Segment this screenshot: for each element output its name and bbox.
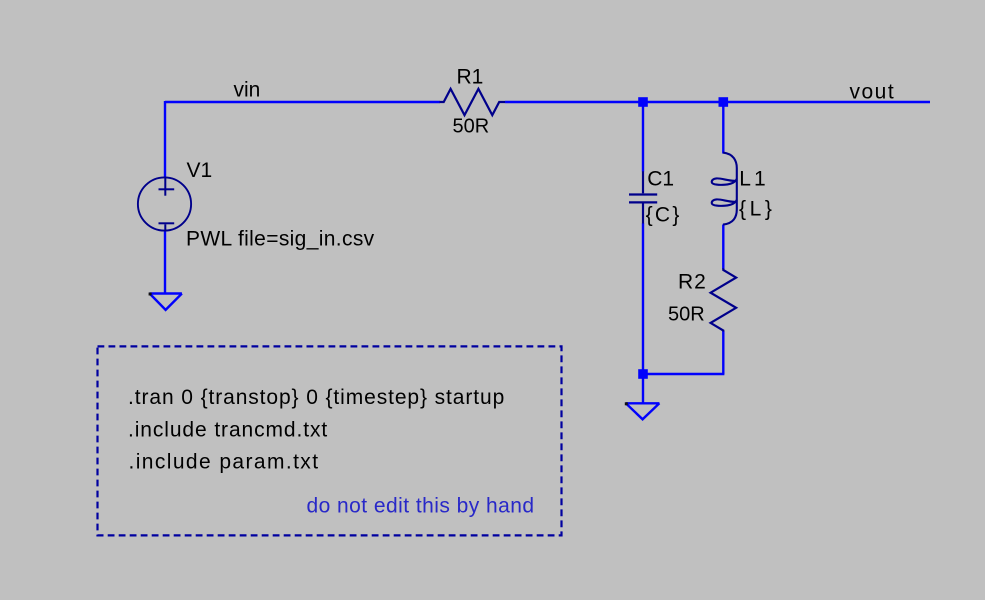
label R1 (457, 66, 484, 89)
wire V1 top vertical (164, 101, 166, 178)
value {C} (646, 204, 682, 227)
label R2 (678, 271, 707, 294)
resistor R1 (440, 89, 505, 115)
svg-text:PWL file=sig_in.csv: PWL file=sig_in.csv (186, 228, 375, 251)
wire R2 bottom (722, 331, 724, 374)
annotation dashed box (98, 346, 562, 535)
wire V1 bottom to ground (164, 231, 166, 294)
svg-text:R1: R1 (457, 66, 484, 89)
text .include param.txt (129, 451, 320, 474)
svg-text:{L}: {L} (739, 198, 776, 221)
svg-text:.tran 0 {transtop} 0 {timestep: .tran 0 {transtop} 0 {timestep} startup (128, 386, 505, 409)
capacitor C1 (629, 171, 657, 223)
text .include trancmd.txt (128, 419, 328, 442)
svg-text:do not edit this by hand: do not edit this by hand (307, 495, 535, 518)
ground GND1 (149, 293, 182, 310)
inductor L1 (712, 153, 737, 225)
junction node at L1 top (719, 97, 729, 107)
wire bottom horizontal (643, 373, 724, 375)
label C1 (647, 168, 674, 191)
svg-text:C1: C1 (647, 168, 674, 191)
svg-text:.include trancmd.txt: .include trancmd.txt (128, 419, 328, 442)
node label vin (234, 79, 261, 102)
wire vout horizontal right segment (505, 101, 930, 103)
value {L} (739, 198, 776, 221)
wire L1 to R2 (722, 225, 724, 270)
node label vout (850, 80, 896, 103)
svg-text:V1: V1 (187, 159, 213, 182)
svg-text:R2: R2 (678, 271, 707, 294)
value 50R of R1 (453, 116, 490, 138)
value PWL file=sig_in.csv (186, 228, 375, 251)
text do not edit this by hand (307, 495, 535, 518)
svg-text:.include param.txt: .include param.txt (129, 451, 320, 474)
wire L1 top (722, 102, 724, 154)
wire ground2 stem (642, 374, 644, 404)
label V1 (187, 159, 213, 182)
svg-text:vin: vin (234, 79, 261, 102)
svg-text:L1: L1 (739, 168, 768, 191)
value 50R of R2 (668, 304, 705, 326)
label L1 (739, 168, 768, 191)
junction node at C1 bottom (638, 369, 648, 379)
svg-text:{C}: {C} (646, 204, 682, 227)
text .tran line (128, 386, 505, 409)
resistor R2 (711, 268, 737, 331)
svg-text:50R: 50R (668, 304, 705, 326)
voltage source V1 (138, 177, 191, 230)
svg-text:vout: vout (850, 80, 896, 103)
wire vin horizontal left segment (165, 101, 440, 103)
svg-text:50R: 50R (453, 116, 490, 138)
junction node at C1 top (638, 97, 648, 107)
wire C1 top (642, 102, 644, 172)
wire C1 bottom (642, 223, 644, 374)
ground GND2 (625, 402, 660, 419)
